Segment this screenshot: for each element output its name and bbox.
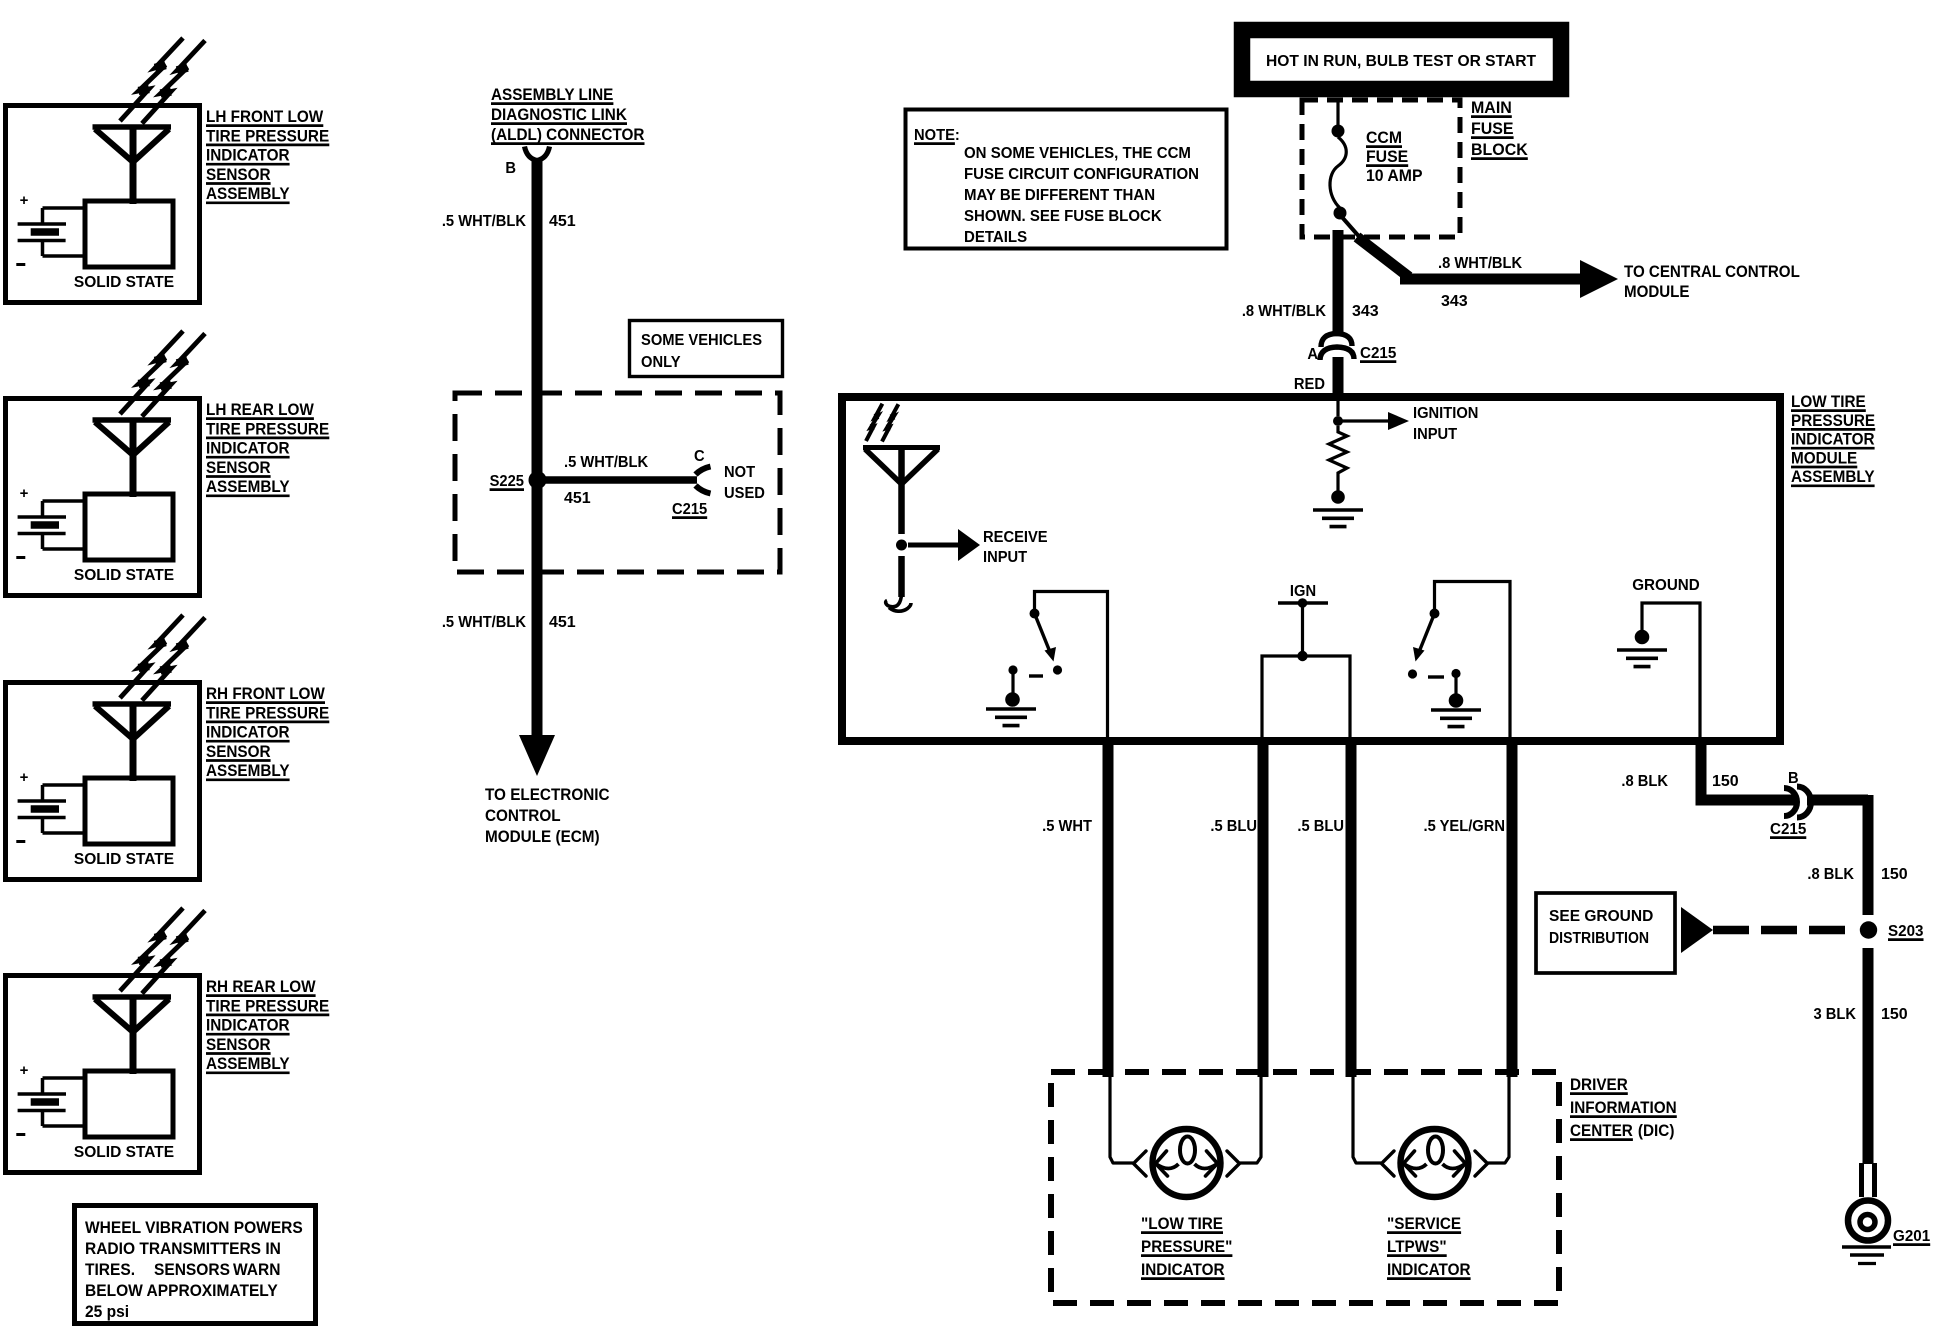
- label SERVICE LTPWS INDICATOR: [1387, 1214, 1461, 1233]
- svg-text:.8 WHT/BLK: .8 WHT/BLK: [1242, 302, 1326, 320]
- dashed box MAIN FUSE BLOCK: [1302, 100, 1460, 237]
- splice S203: [1860, 921, 1877, 938]
- svg-text:DRIVER: DRIVER: [1570, 1075, 1628, 1094]
- battery: [20, 485, 29, 502]
- svg-text:.5 YEL/GRN: .5 YEL/GRN: [1424, 817, 1505, 835]
- svg-text:DISTRIBUTION: DISTRIBUTION: [1549, 929, 1649, 947]
- svg-text:LOW TIRE: LOW TIRE: [1791, 392, 1866, 411]
- svg-text:+: +: [20, 769, 29, 786]
- svg-text:PRESSURE: PRESSURE: [1791, 411, 1875, 430]
- wire 3 BLK 150 to G201: [1863, 948, 1874, 1164]
- power feed box HOT IN RUN BULB TEST OR START: [1242, 30, 1561, 89]
- svg-text:WARN: WARN: [233, 1262, 280, 1279]
- indicator lamp LOW TIRE PRESSURE: [1110, 1077, 1133, 1163]
- antenna: [93, 417, 172, 423]
- svg-text:A: A: [1307, 346, 1318, 363]
- svg-text:SOLID STATE: SOLID STATE: [74, 567, 174, 584]
- svg-text:.5 WHT/BLK: .5 WHT/BLK: [564, 453, 648, 471]
- svg-text:451: 451: [564, 490, 591, 507]
- svg-text:MAY BE DIFFERENT THAN: MAY BE DIFFERENT THAN: [964, 187, 1155, 204]
- label TO CENTRAL CONTROL MODULE: [1624, 262, 1800, 281]
- wire .8 WHT/BLK 343 down to connector: [1333, 230, 1344, 336]
- svg-text:"LOW TIRE: "LOW TIRE: [1141, 1214, 1223, 1233]
- svg-text:HOT IN RUN, BULB TEST OR START: HOT IN RUN, BULB TEST OR START: [1266, 53, 1536, 70]
- svg-text:C215: C215: [672, 501, 707, 518]
- svg-text:150: 150: [1881, 1006, 1908, 1023]
- svg-text:10 AMP: 10 AMP: [1366, 167, 1423, 186]
- wire .5 BLU left: [1258, 741, 1269, 1077]
- svg-text:TIRE PRESSURE: TIRE PRESSURE: [206, 127, 329, 146]
- svg-text:.8 BLK: .8 BLK: [1621, 772, 1668, 790]
- svg-text:ASSEMBLY: ASSEMBLY: [1791, 467, 1875, 486]
- ignition input arrow: [1388, 412, 1409, 430]
- svg-text:MODULE (ECM): MODULE (ECM): [485, 827, 600, 846]
- sensor assembly box (RH FRONT LOW): [6, 683, 200, 880]
- lightning bolts: [120, 38, 183, 121]
- svg-text:BELOW APPROXIMATELY: BELOW APPROXIMATELY: [85, 1283, 278, 1300]
- antenna: [93, 124, 172, 130]
- wire .5 BLU right: [1346, 741, 1357, 1077]
- svg-text:150: 150: [1712, 773, 1739, 790]
- wire .5 WHT: [1103, 741, 1114, 1077]
- svg-text:TIRES.: TIRES.: [85, 1262, 135, 1279]
- label RH FRONT LOW TIRE PRESSURE INDICATOR SENSOR ASSEMBLY: [206, 684, 326, 703]
- svg-text:RECEIVE: RECEIVE: [983, 529, 1048, 546]
- svg-text:LTPWS": LTPWS": [1387, 1237, 1447, 1256]
- low tire pressure indicator module assembly box: [842, 397, 1780, 741]
- switch 1: [1035, 592, 1108, 738]
- svg-text:343: 343: [1352, 303, 1379, 320]
- solid state box: [85, 778, 173, 844]
- sensor assembly box (LH REAR LOW): [6, 399, 200, 596]
- svg-text:TIRE PRESSURE: TIRE PRESSURE: [206, 704, 329, 723]
- module receive antenna: [863, 445, 940, 450]
- internal box between BLU wires: [1262, 656, 1350, 737]
- svg-text:C215: C215: [1360, 345, 1397, 362]
- battery: [20, 192, 29, 209]
- svg-text:INDICATOR: INDICATOR: [1387, 1260, 1471, 1279]
- label LOW TIRE PRESSURE INDICATOR: [1141, 1214, 1223, 1233]
- svg-text:INFORMATION: INFORMATION: [1570, 1098, 1677, 1117]
- svg-text:TO ELECTRONIC: TO ELECTRONIC: [485, 785, 610, 804]
- receive input arrow: [908, 543, 958, 548]
- wire .5 WHT/BLK 451: [532, 158, 543, 393]
- note box: wheel vibration powers radio transmitters in tires: [75, 1206, 316, 1324]
- svg-text:G201: G201: [1893, 1228, 1930, 1245]
- svg-text:IGNITION: IGNITION: [1413, 405, 1478, 422]
- svg-text:B: B: [1788, 770, 1799, 787]
- svg-text:WHEEL VIBRATION POWERS: WHEEL VIBRATION POWERS: [85, 1220, 303, 1237]
- svg-text:.5 BLU: .5 BLU: [1297, 817, 1344, 835]
- antenna: [93, 994, 172, 1000]
- dashed box driver information center: [1051, 1072, 1559, 1303]
- svg-text:IGN: IGN: [1290, 583, 1316, 600]
- svg-text:ASSEMBLY: ASSEMBLY: [206, 761, 290, 780]
- label MAIN FUSE BLOCK: [1471, 99, 1512, 118]
- label LH REAR LOW TIRE PRESSURE INDICATOR SENSOR ASSEMBLY: [206, 400, 315, 419]
- antenna: [93, 701, 172, 707]
- svg-text:FUSE: FUSE: [1366, 148, 1408, 167]
- arrowhead to central control module: [1580, 260, 1618, 298]
- svg-text:.5 WHT/BLK: .5 WHT/BLK: [442, 212, 526, 230]
- wire .5 YEL/GRN: [1507, 741, 1518, 1077]
- svg-text:USED: USED: [724, 485, 765, 502]
- svg-text:451: 451: [549, 213, 576, 230]
- svg-text:NOTE:: NOTE:: [914, 127, 960, 144]
- svg-text:"SERVICE: "SERVICE: [1387, 1214, 1461, 1233]
- svg-text:DIAGNOSTIC LINK: DIAGNOSTIC LINK: [491, 105, 627, 124]
- svg-text:+: +: [20, 485, 29, 502]
- wire RED into module: [1333, 357, 1344, 397]
- arrowhead to ECM: [519, 735, 555, 776]
- svg-text:.5 WHT/BLK: .5 WHT/BLK: [442, 613, 526, 631]
- svg-text:S203: S203: [1888, 923, 1924, 940]
- svg-text:+: +: [20, 1062, 29, 1079]
- svg-text:PRESSURE": PRESSURE": [1141, 1237, 1232, 1256]
- label LH FRONT LOW TIRE PRESSURE INDICATOR SENSOR ASSEMBLY: [206, 107, 324, 126]
- svg-text:SENSORS: SENSORS: [154, 1262, 230, 1279]
- svg-text:FUSE CIRCUIT CONFIGURATION: FUSE CIRCUIT CONFIGURATION: [964, 166, 1199, 183]
- svg-text:RH REAR LOW: RH REAR LOW: [206, 977, 316, 996]
- svg-text:SENSOR: SENSOR: [206, 458, 271, 477]
- svg-text:ASSEMBLY: ASSEMBLY: [206, 184, 290, 203]
- svg-text:RED: RED: [1294, 376, 1325, 393]
- svg-text:ON SOME VEHICLES, THE CCM: ON SOME VEHICLES, THE CCM: [964, 145, 1191, 162]
- IGN internal source: [1290, 583, 1316, 600]
- indicator lamp SERVICE LTPWS: [1353, 1077, 1381, 1163]
- svg-text:SOLID STATE: SOLID STATE: [74, 851, 174, 868]
- solid state box: [85, 1071, 173, 1137]
- solid state box: [85, 494, 173, 560]
- svg-text:INDICATOR: INDICATOR: [1141, 1260, 1225, 1279]
- svg-text:INDICATOR: INDICATOR: [206, 723, 290, 742]
- svg-text:LH REAR LOW: LH REAR LOW: [206, 400, 315, 419]
- svg-text:ONLY: ONLY: [641, 354, 681, 371]
- svg-text:SOME VEHICLES: SOME VEHICLES: [641, 332, 762, 349]
- splice S225: [529, 471, 547, 489]
- fuse CCM FUSE 10 AMP: [1336, 100, 1339, 125]
- svg-text:.5 BLU: .5 BLU: [1210, 817, 1257, 835]
- ground terminal G201: [1859, 1163, 1864, 1197]
- wire .5 WHT/BLK 451 to ECM: [532, 572, 543, 737]
- note box about CCM fuse configuration: [906, 110, 1227, 249]
- svg-text:343: 343: [1441, 293, 1468, 310]
- svg-text:GROUND: GROUND: [1632, 577, 1700, 594]
- module antenna lightning bolts: [866, 404, 882, 441]
- sensor assembly box (LH FRONT LOW): [6, 106, 200, 303]
- connector C215 pin A: [1321, 334, 1352, 348]
- svg-text:.5 WHT: .5 WHT: [1042, 817, 1092, 835]
- svg-text:RH FRONT LOW: RH FRONT LOW: [206, 684, 326, 703]
- internal ground: [1632, 577, 1700, 594]
- resistor to ground: [1329, 426, 1347, 478]
- battery: [20, 769, 29, 786]
- lightning bolts: [120, 331, 183, 414]
- wire .8 WHT/BLK 343 branch to central control module: [1341, 216, 1363, 241]
- svg-text:3 BLK: 3 BLK: [1813, 1005, 1856, 1023]
- svg-text:FUSE: FUSE: [1471, 120, 1514, 139]
- svg-text:TIRE PRESSURE: TIRE PRESSURE: [206, 420, 329, 439]
- branch wire .5 WHT/BLK 451 to not-used pin: [537, 476, 697, 484]
- svg-text:INDICATOR: INDICATOR: [206, 146, 290, 165]
- svg-text:C: C: [694, 448, 705, 465]
- svg-text:451: 451: [549, 614, 576, 631]
- svg-text:SENSOR: SENSOR: [206, 165, 271, 184]
- label LOW TIRE PRESSURE INDICATOR MODULE ASSEMBLY: [1791, 392, 1866, 411]
- svg-text:CENTER: CENTER: [1570, 1121, 1633, 1140]
- svg-text:SENSOR: SENSOR: [206, 742, 271, 761]
- svg-text:LH FRONT LOW: LH FRONT LOW: [206, 107, 324, 126]
- svg-text:ASSEMBLY LINE: ASSEMBLY LINE: [491, 85, 614, 104]
- dashed region some vehicles only: [455, 393, 780, 572]
- svg-text:RADIO TRANSMITTERS IN: RADIO TRANSMITTERS IN: [85, 1241, 281, 1258]
- lightning bolts: [120, 615, 183, 698]
- svg-text:.8 WHT/BLK: .8 WHT/BLK: [1438, 254, 1522, 272]
- svg-text:SHOWN. SEE FUSE BLOCK: SHOWN. SEE FUSE BLOCK: [964, 208, 1162, 225]
- label DRIVER INFORMATION CENTER (DIC): [1570, 1075, 1628, 1094]
- svg-text:SENSOR: SENSOR: [206, 1035, 271, 1054]
- wire through dashed region: [532, 393, 543, 572]
- wire .8 BLK 150 to S203: [1807, 795, 1868, 806]
- svg-text:INPUT: INPUT: [1413, 426, 1458, 443]
- svg-text:TO CENTRAL CONTROL: TO CENTRAL CONTROL: [1624, 262, 1800, 281]
- svg-text:DETAILS: DETAILS: [964, 229, 1027, 246]
- wire .8 BLK 150 from module: [1701, 741, 1794, 800]
- svg-text:S225: S225: [490, 473, 524, 490]
- svg-text:(DIC): (DIC): [1638, 1121, 1675, 1140]
- callout box SOME VEHICLES ONLY: [630, 321, 783, 377]
- battery: [20, 1062, 29, 1079]
- svg-text:MAIN: MAIN: [1471, 99, 1512, 118]
- svg-text:(ALDL) CONNECTOR: (ALDL) CONNECTOR: [491, 125, 645, 144]
- svg-text:.8 BLK: .8 BLK: [1807, 865, 1854, 883]
- sensor assembly box (RH REAR LOW): [6, 976, 200, 1173]
- svg-text:INDICATOR: INDICATOR: [206, 439, 290, 458]
- svg-text:25 psi: 25 psi: [85, 1304, 129, 1321]
- label ASSEMBLY LINE DIAGNOSTIC LINK (ALDL) CONNECTOR: [491, 85, 614, 104]
- see ground distribution callout: [1536, 893, 1675, 973]
- ignition input node: [1336, 401, 1339, 416]
- svg-text:ASSEMBLY: ASSEMBLY: [206, 477, 290, 496]
- connector fork C215 pin C not used: [696, 467, 711, 475]
- svg-text:SEE GROUND: SEE GROUND: [1549, 908, 1653, 925]
- svg-text:TIRE PRESSURE: TIRE PRESSURE: [206, 997, 329, 1016]
- svg-text:SOLID STATE: SOLID STATE: [74, 1144, 174, 1161]
- svg-text:INDICATOR: INDICATOR: [1791, 430, 1875, 449]
- svg-text:INPUT: INPUT: [983, 549, 1028, 566]
- connector C215 pin B: [1784, 788, 1797, 816]
- connector fork ALDL pin B: [525, 147, 538, 161]
- svg-text:SOLID STATE: SOLID STATE: [74, 274, 174, 291]
- solid state box: [85, 201, 173, 267]
- svg-text:MODULE: MODULE: [1624, 282, 1690, 301]
- svg-text:CONTROL: CONTROL: [485, 806, 561, 825]
- svg-text:ASSEMBLY: ASSEMBLY: [206, 1054, 290, 1073]
- svg-text:B: B: [505, 160, 516, 177]
- svg-text:CCM: CCM: [1366, 129, 1402, 148]
- label RH REAR LOW TIRE PRESSURE INDICATOR SENSOR ASSEMBLY: [206, 977, 316, 996]
- lightning bolts: [120, 908, 183, 991]
- switch 2: [1435, 582, 1511, 738]
- svg-text:NOT: NOT: [724, 464, 756, 481]
- svg-text:INDICATOR: INDICATOR: [206, 1016, 290, 1035]
- svg-text:C215: C215: [1770, 821, 1807, 838]
- svg-text:BLOCK: BLOCK: [1471, 141, 1528, 160]
- svg-text:MODULE: MODULE: [1791, 449, 1857, 468]
- svg-text:+: +: [20, 192, 29, 209]
- svg-text:150: 150: [1881, 866, 1908, 883]
- label TO ELECTRONIC CONTROL MODULE (ECM): [485, 785, 610, 804]
